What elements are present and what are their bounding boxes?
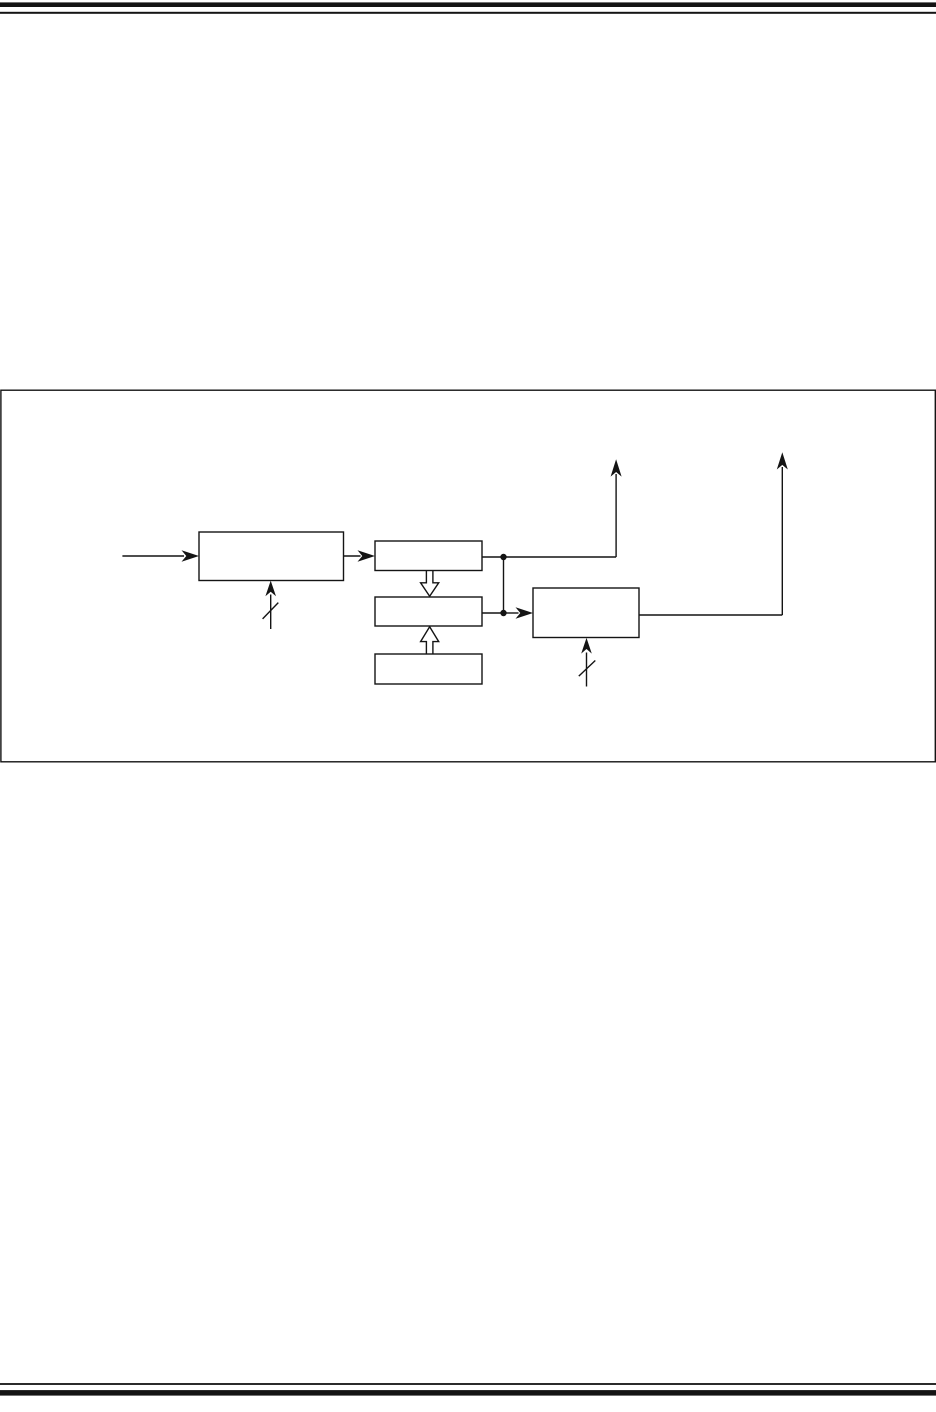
arrowhead into B5 bottom — [581, 638, 592, 654]
wire bus stub under B5 — [586, 653, 588, 687]
arrowhead into B2 — [358, 550, 376, 562]
block B4 — [375, 654, 482, 684]
page footer rule thin — [0, 1383, 936, 1385]
page header rule thin — [0, 12, 936, 14]
block B3 — [375, 597, 482, 626]
arrowhead into B1 — [182, 550, 200, 562]
node N1 junction dot — [500, 554, 506, 560]
arrowhead into B1 bottom — [265, 581, 276, 597]
block B5 — [533, 588, 639, 638]
block B1 — [199, 532, 344, 581]
node N2 junction dot — [500, 610, 506, 616]
wire N1 to node N2 — [503, 557, 505, 613]
wire B2 to node N1 — [482, 556, 504, 558]
arrowhead into B5 — [516, 607, 534, 619]
wire bus stub under B1 — [270, 595, 272, 630]
wire N1 to riser — [504, 556, 617, 558]
bus width slash under B5 — [579, 661, 596, 677]
bus width slash under B1 — [263, 603, 279, 619]
hollow bus arrow B4 up to B3 — [421, 627, 439, 654]
arrowhead up right output — [777, 452, 788, 469]
arrowhead up left output — [611, 459, 622, 476]
wire B3 to node N2 — [482, 612, 504, 614]
wire input to B1 — [122, 555, 184, 557]
wire riser up right — [781, 467, 783, 615]
wire B5 to right riser — [639, 614, 782, 616]
block B2 — [375, 541, 482, 571]
wire riser up left — [615, 474, 617, 557]
page header rule thick — [0, 2, 936, 7]
wire B1 to B2 — [344, 555, 361, 557]
page footer rule thick — [0, 1390, 936, 1396]
wire N2 to B5 — [504, 612, 519, 614]
hollow bus arrow B2 down to B3 — [421, 571, 439, 597]
figure frame — [1, 390, 935, 762]
